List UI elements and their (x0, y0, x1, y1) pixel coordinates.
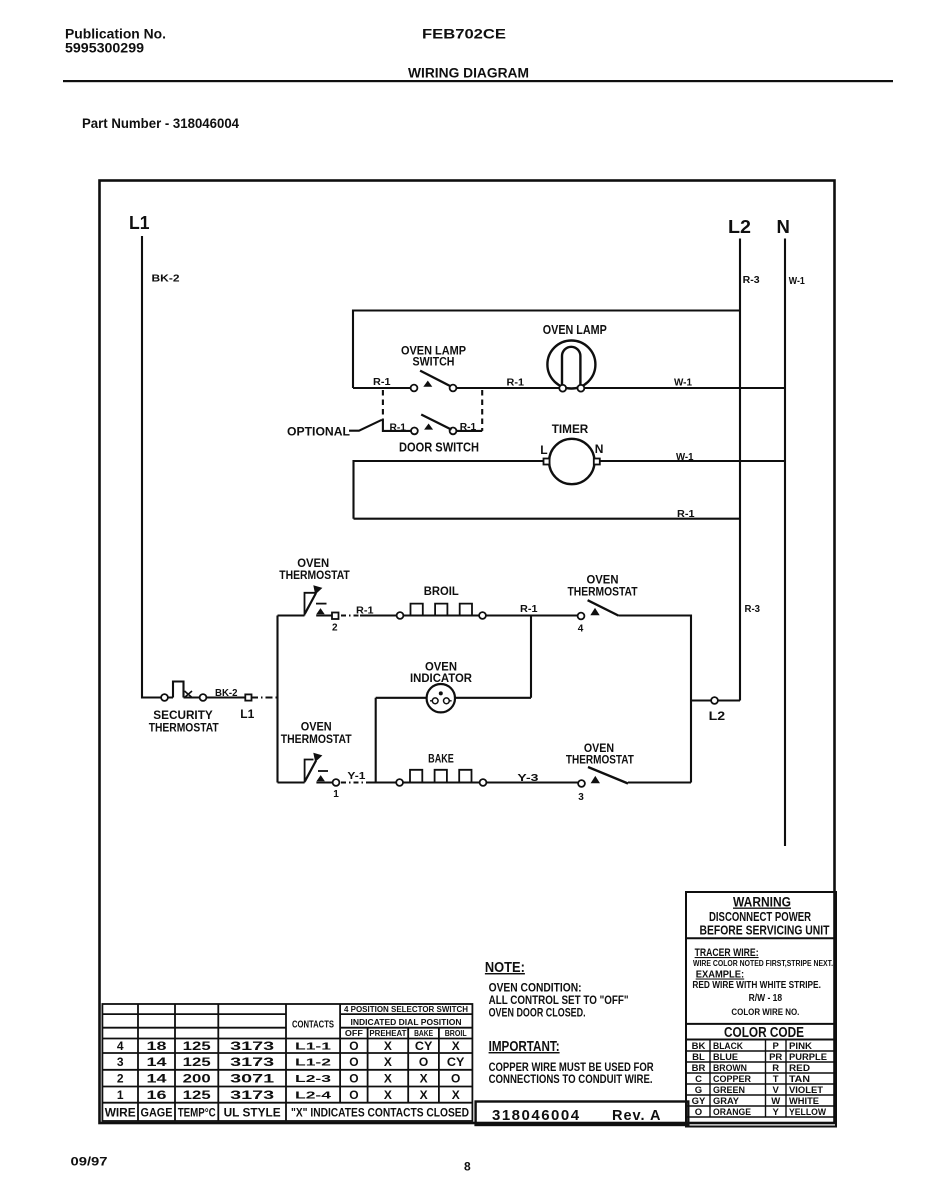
svg-text:THERMOSTAT: THERMOSTAT (281, 732, 352, 746)
svg-text:EXAMPLE:: EXAMPLE: (696, 969, 745, 981)
svg-text:3: 3 (578, 792, 584, 803)
svg-text:14: 14 (147, 1055, 167, 1069)
svg-text:CONNECTIONS TO CONDUIT WIRE.: CONNECTIONS TO CONDUIT WIRE. (489, 1072, 653, 1086)
svg-text:16: 16 (147, 1088, 167, 1102)
svg-text:X: X (452, 1039, 460, 1053)
svg-text:YELLOW: YELLOW (789, 1107, 826, 1118)
svg-text:RED: RED (789, 1063, 810, 1074)
svg-text:WIRING DIAGRAM: WIRING DIAGRAM (408, 66, 529, 81)
svg-text:BEFORE SERVICING UNIT: BEFORE SERVICING UNIT (700, 924, 830, 938)
svg-text:BLACK: BLACK (713, 1041, 743, 1052)
svg-text:8: 8 (464, 1160, 471, 1174)
svg-text:3071: 3071 (230, 1072, 275, 1086)
svg-text:L2-4: L2-4 (295, 1090, 331, 1102)
svg-text:14: 14 (147, 1072, 167, 1086)
svg-text:1: 1 (117, 1088, 124, 1102)
svg-text:2: 2 (117, 1072, 124, 1086)
svg-text:PURPLE: PURPLE (789, 1052, 827, 1063)
svg-text:CY: CY (447, 1055, 465, 1069)
svg-text:GRAY: GRAY (713, 1096, 740, 1107)
svg-text:GREEN: GREEN (713, 1085, 745, 1096)
svg-text:BL: BL (692, 1052, 705, 1063)
svg-text:PREHEAT: PREHEAT (369, 1029, 406, 1038)
svg-text:R-1: R-1 (677, 508, 695, 520)
svg-text:CONTACTS: CONTACTS (292, 1019, 334, 1031)
svg-text:TEMP°C: TEMP°C (178, 1106, 216, 1120)
svg-text:1: 1 (333, 789, 339, 800)
svg-text:TRACER WIRE:: TRACER WIRE: (695, 947, 759, 959)
svg-text:L2: L2 (709, 710, 726, 723)
svg-text:L2: L2 (728, 216, 751, 237)
svg-text:4: 4 (578, 624, 584, 635)
svg-text:BROIL: BROIL (424, 584, 459, 598)
svg-text:COLOR WIRE NO.: COLOR WIRE NO. (731, 1007, 799, 1018)
svg-text:P: P (773, 1041, 780, 1052)
svg-text:2: 2 (332, 623, 338, 634)
svg-text:4: 4 (117, 1039, 124, 1053)
svg-text:BK-2: BK-2 (152, 273, 180, 285)
svg-text:VIOLET: VIOLET (789, 1085, 823, 1096)
svg-text:O: O (349, 1072, 358, 1086)
svg-text:125: 125 (183, 1088, 211, 1102)
svg-text:18: 18 (147, 1039, 167, 1053)
svg-text:BROWN: BROWN (713, 1063, 747, 1074)
svg-text:WIRE: WIRE (105, 1106, 136, 1120)
svg-text:C: C (695, 1074, 702, 1085)
svg-text:318046004: 318046004 (492, 1107, 581, 1124)
svg-text:W: W (771, 1096, 780, 1107)
svg-text:3: 3 (117, 1055, 124, 1069)
svg-text:RED WIRE WITH WHITE STRIPE.: RED WIRE WITH WHITE STRIPE. (692, 980, 821, 991)
svg-text:IMPORTANT:: IMPORTANT: (489, 1039, 560, 1055)
svg-text:L: L (540, 443, 547, 457)
svg-text:FEB702CE: FEB702CE (422, 26, 506, 42)
svg-text:X: X (384, 1088, 392, 1102)
svg-text:3173: 3173 (230, 1088, 275, 1102)
svg-text:BK-2: BK-2 (215, 688, 238, 699)
svg-text:OVEN LAMP: OVEN LAMP (543, 322, 607, 337)
svg-text:X: X (384, 1072, 392, 1086)
svg-text:O: O (349, 1055, 358, 1069)
svg-text:ORANGE: ORANGE (713, 1107, 751, 1118)
svg-text:Y-1: Y-1 (347, 770, 365, 782)
svg-text:O: O (349, 1088, 358, 1102)
svg-text:L2-3: L2-3 (295, 1073, 331, 1085)
svg-text:THERMOSTAT: THERMOSTAT (566, 753, 634, 767)
svg-text:R: R (772, 1063, 779, 1074)
svg-text:O: O (451, 1072, 460, 1086)
svg-text:O: O (695, 1107, 702, 1118)
svg-text:DISCONNECT POWER: DISCONNECT POWER (709, 910, 811, 924)
svg-text:INDICATED DIAL POSITION: INDICATED DIAL POSITION (351, 1018, 462, 1027)
svg-text:W-1: W-1 (676, 451, 694, 463)
svg-text:Rev. A: Rev. A (612, 1108, 662, 1124)
svg-text:R-1: R-1 (460, 421, 477, 433)
svg-text:WHITE: WHITE (789, 1096, 819, 1107)
svg-text:R-3: R-3 (743, 274, 760, 286)
svg-text:Part Number - 318046004: Part Number - 318046004 (82, 116, 239, 131)
svg-text:Y: Y (773, 1107, 780, 1118)
svg-text:O: O (349, 1039, 358, 1053)
svg-text:L1: L1 (240, 708, 255, 721)
svg-text:R-3: R-3 (745, 603, 761, 615)
svg-text:UL STYLE: UL STYLE (224, 1106, 281, 1120)
svg-text:Publication No.: Publication No. (65, 27, 166, 42)
svg-text:DOOR SWITCH: DOOR SWITCH (399, 440, 479, 455)
svg-text:OVEN DOOR CLOSED.: OVEN DOOR CLOSED. (489, 1006, 586, 1020)
svg-text:BR: BR (692, 1063, 706, 1074)
svg-text:PR: PR (769, 1052, 782, 1063)
svg-text:Y-3: Y-3 (517, 772, 538, 784)
svg-text:R-1: R-1 (373, 376, 391, 388)
svg-text:BAKE: BAKE (414, 1029, 434, 1038)
svg-text:BK: BK (692, 1041, 706, 1052)
svg-text:X: X (384, 1039, 392, 1053)
svg-text:GAGE: GAGE (141, 1106, 173, 1120)
svg-text:OFF: OFF (345, 1029, 363, 1038)
svg-text:N: N (777, 216, 790, 237)
svg-text:L1-2: L1-2 (295, 1057, 331, 1069)
svg-text:V: V (773, 1085, 780, 1096)
svg-text:THERMOSTAT: THERMOSTAT (568, 585, 638, 599)
svg-text:TAN: TAN (789, 1074, 810, 1085)
svg-text:G: G (695, 1085, 702, 1096)
svg-text:L1: L1 (129, 212, 150, 233)
svg-text:3173: 3173 (230, 1055, 275, 1069)
svg-text:125: 125 (183, 1039, 211, 1053)
svg-text:NOTE:: NOTE: (485, 960, 525, 976)
svg-text:5995300299: 5995300299 (65, 41, 144, 56)
svg-text:X: X (452, 1088, 460, 1102)
svg-text:3173: 3173 (230, 1039, 275, 1053)
svg-text:THERMOSTAT: THERMOSTAT (279, 568, 350, 582)
svg-text:BROIL: BROIL (445, 1029, 467, 1038)
svg-text:BLUE: BLUE (713, 1052, 738, 1063)
svg-text:R-1: R-1 (520, 603, 538, 615)
svg-text:X: X (420, 1072, 428, 1086)
svg-text:R-1: R-1 (507, 377, 525, 389)
svg-text:"X" INDICATES CONTACTS CLOSED: "X" INDICATES CONTACTS CLOSED (291, 1106, 469, 1120)
svg-text:TIMER: TIMER (552, 422, 589, 436)
svg-text:O: O (419, 1055, 428, 1069)
svg-text:N: N (595, 442, 604, 456)
svg-text:W-1: W-1 (674, 377, 692, 389)
svg-text:R/W - 18: R/W - 18 (749, 993, 783, 1004)
svg-text:R-1: R-1 (356, 605, 374, 617)
svg-text:W-1: W-1 (789, 275, 805, 287)
svg-text:L1-1: L1-1 (295, 1041, 331, 1053)
svg-text:4 POSITION SELECTOR SWITCH: 4 POSITION SELECTOR SWITCH (344, 1005, 468, 1014)
svg-text:COLOR CODE: COLOR CODE (724, 1025, 804, 1041)
svg-text:T: T (773, 1074, 779, 1085)
svg-text:WARNING: WARNING (733, 895, 791, 910)
svg-text:COPPER: COPPER (713, 1074, 751, 1085)
svg-text:WIRE COLOR NOTED FIRST,STRIPE: WIRE COLOR NOTED FIRST,STRIPE NEXT. (693, 959, 833, 968)
svg-text:CY: CY (415, 1039, 433, 1053)
svg-text:X: X (384, 1055, 392, 1069)
svg-text:GY: GY (692, 1096, 706, 1107)
svg-text:PINK: PINK (789, 1041, 812, 1052)
svg-text:125: 125 (183, 1055, 211, 1069)
svg-text:OPTIONAL: OPTIONAL (287, 425, 350, 439)
svg-text:09/97: 09/97 (71, 1155, 108, 1169)
svg-text:INDICATOR: INDICATOR (410, 671, 472, 685)
svg-text:R-1: R-1 (390, 422, 407, 434)
svg-text:SWITCH: SWITCH (413, 355, 455, 369)
svg-text:THERMOSTAT: THERMOSTAT (149, 721, 219, 735)
svg-text:200: 200 (183, 1072, 211, 1086)
svg-text:X: X (420, 1088, 428, 1102)
svg-text:BAKE: BAKE (428, 752, 454, 766)
